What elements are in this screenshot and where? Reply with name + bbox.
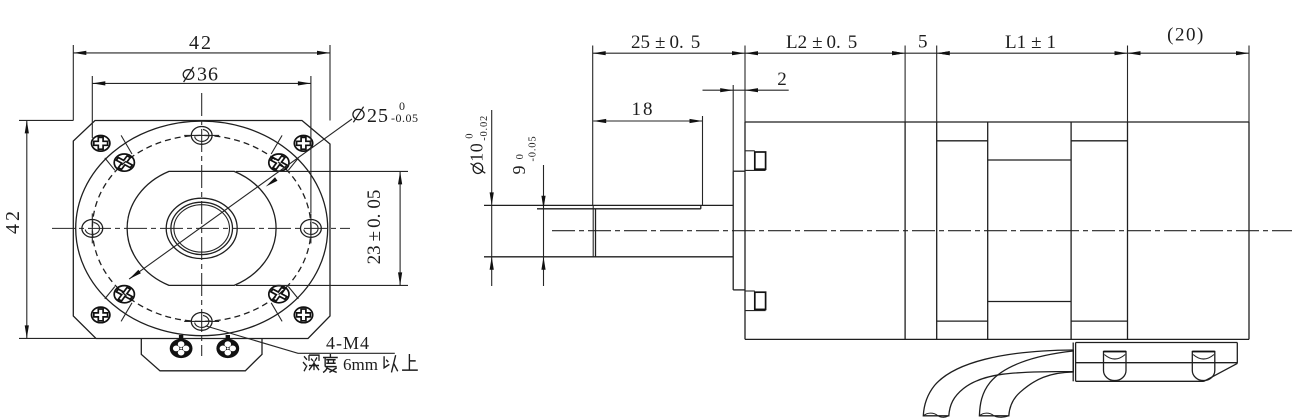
svg-text:4-M4: 4-M4 (326, 333, 370, 353)
hanzi yi (384, 355, 398, 372)
svg-text:18: 18 (632, 99, 655, 120)
dim 42 top (72, 45, 74, 121)
phillips screw top-left (114, 154, 134, 171)
svg-text:(20): (20) (1167, 25, 1205, 46)
svg-text:25: 25 (367, 105, 389, 127)
hanzi du (323, 354, 338, 372)
corner cross screw top-left (92, 136, 110, 152)
corner cross screw bottom-left (92, 307, 110, 323)
rear connector pin 2 (1192, 352, 1215, 381)
rear connector pin 1 (1104, 352, 1127, 381)
housing corner chamfer ticks top-right (271, 135, 282, 154)
svg-text:L1±1: L1±1 (1005, 32, 1056, 53)
dim text dia25 with tolerance (353, 109, 364, 119)
svg-text:10: 10 (467, 143, 487, 162)
svg-text:42: 42 (2, 208, 24, 234)
svg-text:-0.05: -0.05 (391, 111, 419, 125)
front view: flange square outline (73, 121, 330, 339)
cables (923, 350, 1073, 416)
bolt circle (dashed, dia 36) (92, 135, 311, 321)
bottom connector block (141, 339, 262, 371)
dim text dia36 (183, 70, 194, 80)
pilot boss dia 25 with top/bottom flats (127, 171, 276, 285)
dim dia36 (91, 76, 93, 138)
dim 2 (732, 85, 734, 171)
dim dia10 (491, 110, 493, 286)
extension line at flange face (744, 46, 746, 123)
dim text dia10 with tolerance (rotated) (465, 115, 491, 174)
extension line at motor rear (1127, 46, 1129, 123)
corner cross screw top-right (294, 136, 312, 152)
svg-text:36: 36 (197, 64, 219, 86)
svg-text:2: 2 (777, 69, 787, 90)
svg-text:9: 9 (509, 166, 529, 175)
extension line at housing rear (1248, 46, 1250, 123)
rear housing (1248, 122, 1250, 339)
svg-text:-0.05: -0.05 (528, 136, 539, 162)
phillips screw bottom-right (269, 286, 289, 303)
dim 23 right (236, 170, 408, 172)
M4 mounting hole bottom (184, 320, 219, 322)
svg-text:25±0.5: 25±0.5 (631, 32, 700, 53)
svg-text:L2±0.5: L2±0.5 (786, 32, 857, 53)
gearbox pilot boss (side) (732, 171, 734, 290)
phillips screw bottom-left (114, 286, 134, 303)
connector socket left (179, 335, 183, 340)
housing corner chamfer ticks top-left (121, 135, 132, 154)
corner cross screw bottom-right (294, 307, 312, 323)
gearbox body (744, 122, 746, 339)
centerline vertical (201, 93, 203, 356)
dim 18 (702, 116, 704, 206)
connector socket right (226, 335, 230, 340)
phillips screw top-right (269, 154, 289, 171)
dim 42 left (19, 119, 73, 121)
svg-text:-0.02: -0.02 (479, 115, 490, 141)
dia25 leader line with arrows (129, 119, 352, 279)
M4 mounting hole right (310, 213, 312, 243)
svg-text:6mm: 6mm (343, 355, 378, 374)
svg-text:23±0.05: 23±0.05 (364, 190, 385, 265)
dim 9 (543, 165, 545, 286)
svg-text:5: 5 (918, 32, 928, 53)
front view: gearbox housing circle (76, 121, 328, 336)
center shaft bore circles (166, 198, 237, 258)
extension line at motor front (936, 46, 938, 123)
side view centerline (552, 230, 1292, 232)
svg-text:0: 0 (515, 154, 526, 159)
M4 mounting hole top (184, 134, 219, 136)
M4 mounting hole left (91, 213, 93, 243)
motor body (987, 122, 989, 339)
svg-text:0: 0 (465, 134, 476, 139)
extension line at shaft tip (592, 46, 594, 206)
dim text 9 with tolerance (rotated) (509, 136, 539, 175)
svg-text:42: 42 (189, 32, 213, 54)
spacer plate (936, 122, 938, 339)
shaft outline (484, 204, 733, 206)
housing corner chamfer ticks bottom-right (271, 303, 282, 322)
leader 4-M4 (206, 326, 395, 353)
centerline horizontal (52, 227, 350, 229)
hanzi shen (depth) (303, 355, 319, 371)
gearbox assembly screw (top, side view) (745, 150, 755, 152)
extension line at gearbox rear (904, 46, 906, 123)
rear connector box (1072, 343, 1074, 382)
housing corner chamfer ticks bottom-left (121, 303, 132, 322)
gearbox assembly screw (bottom, side view) (745, 290, 755, 292)
hanzi shang (402, 354, 418, 370)
